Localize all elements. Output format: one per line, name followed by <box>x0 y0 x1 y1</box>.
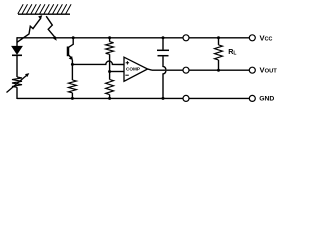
node: emitter resistor to GND <box>71 97 74 100</box>
GND rail wire <box>17 97 183 99</box>
LED <box>12 46 22 55</box>
svg-text:RL: RL <box>228 47 236 56</box>
node: RL junction on Vcc rail <box>217 36 220 39</box>
rheostat (variable resistor) <box>7 73 30 92</box>
light ray arrow from LED to surface <box>17 15 42 42</box>
node: collector junction on Vcc rail <box>72 36 75 39</box>
svg-text:GND: GND <box>259 96 274 103</box>
svg-text:VCC: VCC <box>260 34 273 43</box>
wire rheostat to GND rail <box>16 87 18 99</box>
VOUT rail wire <box>152 69 183 71</box>
wire LED to rheostat <box>16 55 18 77</box>
terminal GND <box>249 95 274 102</box>
capacitor wire to GND with hop over VOUT rail <box>163 56 166 98</box>
node: capacitor to GND <box>162 97 165 100</box>
node: divider junction on Vcc rail <box>108 36 111 39</box>
emitter load resistor <box>68 64 76 98</box>
VOUT rail wire right of connector <box>189 69 249 71</box>
terminal VOUT <box>249 66 277 75</box>
divider resistor bottom <box>106 72 114 99</box>
reflective surface (hatched) <box>18 4 71 14</box>
phototransistor Q1 emitter with arrow <box>69 55 73 64</box>
LED vertical wire from Vcc rail <box>16 37 18 46</box>
phototransistor Q1 collector wire <box>69 38 74 47</box>
connector circle on VOUT rail <box>183 67 189 73</box>
wire emitter node to comparator + input with hop over divider wire <box>72 61 124 64</box>
svg-text:COMP: COMP <box>126 66 140 71</box>
phototransistor Q1 base bar <box>67 47 70 57</box>
connector circle on GND rail <box>183 95 189 101</box>
node: emitter node <box>71 63 74 66</box>
GND rail wire right of connector <box>189 97 249 99</box>
terminal Vcc <box>249 34 272 43</box>
divider resistor top <box>106 38 114 72</box>
Vcc rail wire <box>17 37 183 39</box>
connector circle on Vcc rail <box>183 35 189 41</box>
node: divider midpoint <box>108 70 111 73</box>
wire divider midpoint to comparator - input <box>110 71 124 73</box>
capacitor <box>157 38 169 56</box>
resistor RL <box>215 38 223 70</box>
svg-text:VOUT: VOUT <box>260 66 278 75</box>
capacitor junction on Vcc rail <box>162 36 165 39</box>
node: RL bottom on VOUT rail <box>217 69 220 72</box>
light ray arrow reflected from surface to phototransistor <box>46 16 57 41</box>
node: divider bottom to GND <box>108 97 111 100</box>
Vcc rail wire right of connector <box>189 37 249 39</box>
op-amp comparator U1 <box>124 57 152 81</box>
